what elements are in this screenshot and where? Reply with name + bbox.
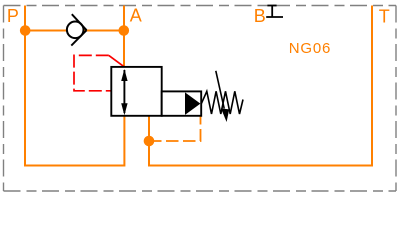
plugged port B symbol bottom bar — [266, 16, 283, 18]
spring (adjustable) — [202, 91, 244, 114]
svg-text:B: B — [254, 6, 266, 26]
adjustment arrowhead — [221, 108, 229, 122]
check valve CV1 seat lower ray — [71, 30, 86, 45]
plugged port B symbol stem — [271, 6, 273, 18]
wire drain: valve bottom to T port — [149, 6, 372, 166]
svg-text:P: P — [7, 6, 19, 26]
node junction dot at A line — [119, 25, 130, 36]
valve flow arrowhead top — [121, 69, 127, 81]
wire A vertical: A port to valve top port — [123, 6, 125, 67]
pilot wire dashed orange: node to solenoid box bottom — [149, 116, 201, 141]
valve flow arrow shaft — [123, 70, 125, 113]
wire P down-left run: P port to valve bottom inlet — [25, 6, 124, 166]
svg-text:A: A — [130, 6, 142, 26]
node junction dot at P line — [20, 25, 31, 36]
enclosure boundary (manifold body, dashed) — [4, 6, 397, 192]
adjustment arrow shaft — [216, 71, 224, 109]
check valve CV1 seat upper ray — [72, 14, 87, 30]
pilot line dashed red (internal pilot passage) — [109, 55, 124, 66]
wire P to A horizontal (through check valve) — [25, 30, 124, 32]
valve main body box (2-way cartridge) — [111, 67, 161, 116]
solenoid/pilot actuator box — [162, 91, 202, 115]
svg-text:NG06: NG06 — [289, 40, 331, 57]
node junction dot on drain line — [144, 136, 155, 147]
solenoid triangle (pilot pressure) — [185, 92, 200, 115]
plugged port B symbol top bar — [267, 5, 276, 7]
pilot line dashed red (internal pilot passage loop) — [74, 55, 111, 90]
check valve CV1 circle — [67, 22, 84, 39]
valve flow arrowhead bottom — [121, 103, 127, 115]
svg-text:T: T — [379, 7, 390, 27]
